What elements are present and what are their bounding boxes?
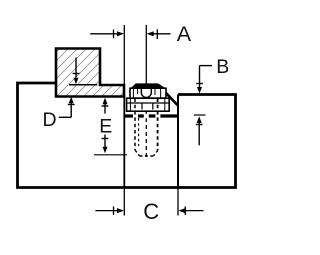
svg-text:E: E bbox=[99, 116, 112, 138]
slot left edge bbox=[123, 97, 125, 188]
washer bbox=[127, 98, 170, 111]
slot right extension line below body bbox=[177, 188, 179, 216]
seam extension line (step surface) bbox=[69, 84, 97, 86]
dimension B leader bbox=[196, 66, 212, 94]
main body outline bbox=[18, 83, 236, 188]
dimension C arrow left bbox=[95, 206, 124, 215]
screw tip chamfer (hidden) bbox=[135, 150, 140, 156]
step clamp block (hatched L-piece) bbox=[56, 49, 124, 97]
screw head body bbox=[130, 88, 166, 98]
hole bottom extension line bbox=[94, 154, 127, 156]
screw centerline bbox=[145, 25, 147, 118]
dimension C arrow right bbox=[178, 206, 203, 215]
screw head crown (filled) bbox=[130, 83, 165, 88]
slot right edge bbox=[177, 95, 179, 188]
washer ticks bbox=[129, 99, 131, 111]
dimension D leader + up arrow bbox=[59, 97, 75, 118]
dimension D down arrow (inside block) bbox=[73, 58, 80, 85]
slot left extension line below body bbox=[123, 188, 125, 216]
screw thread minor lines (hidden) bbox=[138, 118, 140, 146]
screw shank hidden lines bbox=[134, 99, 136, 151]
pocket floor bbox=[124, 114, 178, 117]
slot left extension line above (dim A) bbox=[123, 25, 125, 85]
dimension B lower arrow bbox=[196, 116, 203, 145]
svg-text:C: C bbox=[143, 199, 159, 224]
washer mid seam bbox=[128, 102, 169, 104]
pocket chamfer slope bbox=[160, 87, 177, 105]
dimension A arrow left bbox=[90, 30, 124, 39]
svg-text:B: B bbox=[216, 56, 229, 78]
svg-text:A: A bbox=[177, 22, 192, 46]
dimension A arrow right bbox=[147, 29, 171, 39]
nut hidden profile bbox=[141, 104, 143, 110]
dimension E up arrow bbox=[102, 98, 109, 114]
svg-text:D: D bbox=[43, 109, 57, 131]
pocket floor extension line (right) bbox=[194, 114, 206, 116]
head knurl ticks bbox=[132, 89, 134, 98]
dimension E down arrow bbox=[102, 135, 109, 154]
hex socket (hidden) bbox=[141, 89, 151, 98]
